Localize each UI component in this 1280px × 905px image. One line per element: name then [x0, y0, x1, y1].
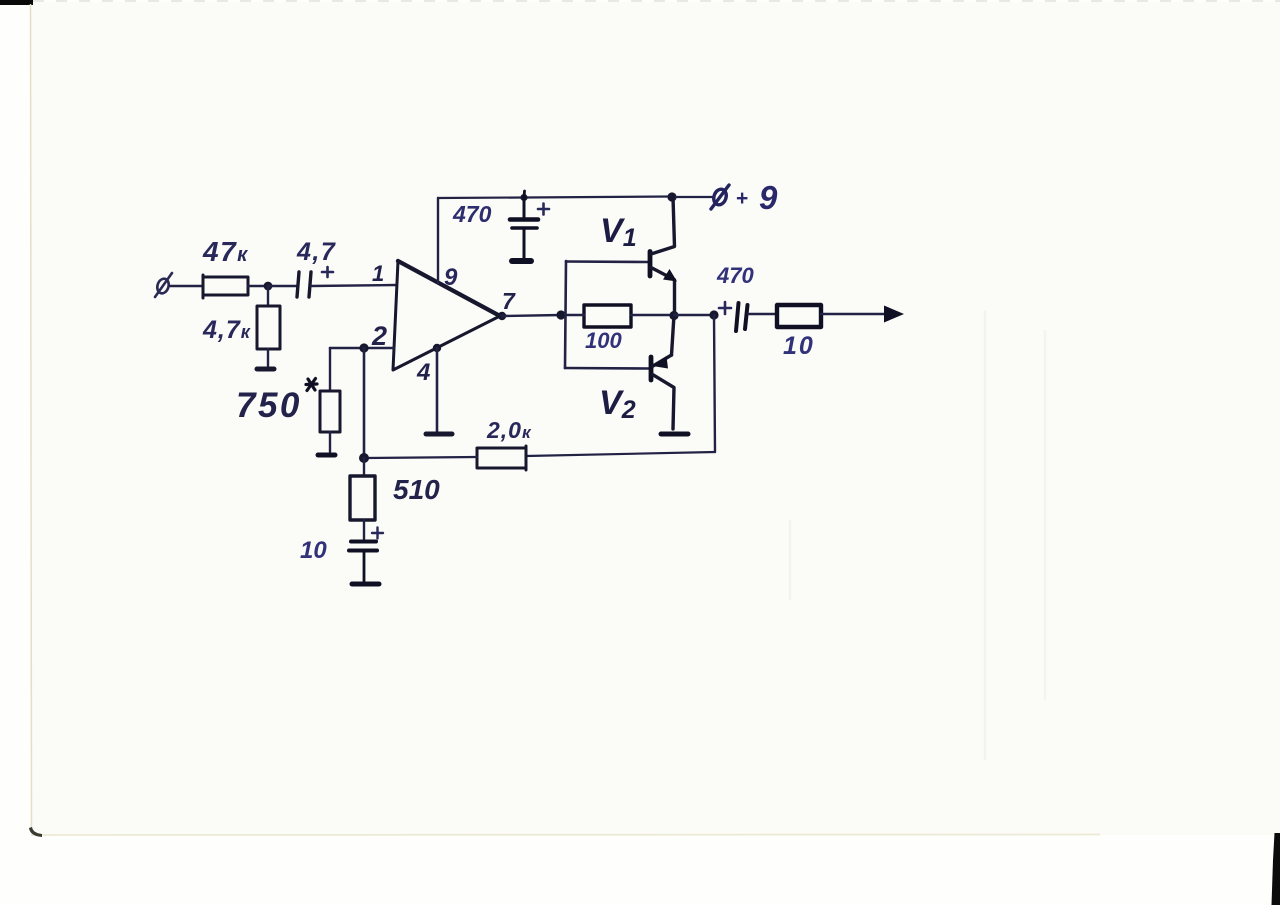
wire node D to node E: [674, 314, 714, 316]
svg-text:7: 7: [502, 288, 516, 314]
base network box left wire: [565, 261, 566, 368]
input terminal: [155, 273, 172, 297]
wire node B down to node F: [363, 348, 366, 458]
capacitor C 4.7: [297, 272, 311, 297]
resistor 2.0k: [477, 446, 526, 470]
feedback wire bottom to R2.0k: [526, 452, 715, 456]
top +9 rail: [438, 197, 672, 199]
capacitor C470 decoupling: [510, 198, 538, 258]
rail junction at C470: [520, 194, 527, 201]
svg-text:750: 750: [236, 386, 302, 425]
asterisk mark: [306, 379, 317, 391]
svg-text:4: 4: [416, 359, 430, 386]
wire input2 corner down to R750: [329, 348, 331, 391]
svg-text:470: 470: [716, 263, 754, 288]
wire node A to C4.7: [268, 285, 296, 287]
wire node A down to R4.7k: [267, 286, 269, 306]
plus sign of C4.7: [322, 267, 333, 277]
ground under R4.7k: [257, 367, 274, 372]
plus of C10: [372, 528, 383, 539]
resistor 4.7k: [257, 306, 280, 349]
svg-text:10: 10: [300, 537, 327, 564]
transistor V2 base bar: [649, 357, 654, 380]
wire node F to R510: [363, 458, 365, 476]
svg-text:510: 510: [393, 474, 440, 505]
output node of op-amp: [498, 312, 506, 320]
transistor V2 emitter with arrow: [653, 315, 674, 366]
svg-text:2: 2: [371, 321, 387, 351]
wire R2.0k to node F: [364, 457, 477, 458]
plus of C470: [538, 204, 549, 215]
wire R510 to C10: [363, 520, 365, 539]
node C junction: [556, 310, 565, 319]
resistor 47k: [203, 275, 248, 298]
ground under R750: [318, 453, 335, 458]
wire R47k to node A: [248, 285, 268, 287]
wire R10 to output arrow: [821, 313, 886, 315]
output arrowhead: [884, 306, 904, 323]
wire R4.7k to ground: [267, 349, 269, 366]
resistor 510: [350, 476, 375, 520]
svg-text:470: 470: [452, 201, 492, 227]
node A junction: [264, 282, 273, 291]
pin 4 wire down: [436, 348, 439, 431]
base network top wire to V1 base: [566, 260, 648, 263]
rail node at V1 collector: [667, 192, 676, 201]
ground under pin 4: [426, 432, 452, 437]
transistor V1 base bar: [648, 252, 653, 277]
svg-text:9: 9: [759, 179, 778, 216]
op-amp input 2 wire: [330, 347, 394, 350]
svg-text:100: 100: [585, 328, 622, 353]
op-amp U1 triangle: [393, 261, 500, 370]
wire node C to R100: [565, 314, 584, 316]
feedback wire node E down: [714, 315, 715, 452]
capacitor C10: [349, 542, 377, 582]
resistor 10 output: [777, 305, 821, 327]
pin 9 wire to top rail: [437, 198, 439, 283]
+9 terminal circle: [711, 185, 729, 209]
wire op-amp output to node C: [502, 315, 561, 316]
transistor V1 collector: [651, 197, 675, 254]
wire input to R47k: [170, 285, 202, 287]
node D junction: [669, 311, 678, 320]
svg-text:10: 10: [783, 332, 815, 360]
wire R100 to node D: [631, 314, 674, 316]
transistor V2 collector: [653, 375, 675, 430]
ground bar under C470: [512, 258, 531, 264]
wire R750 to ground: [329, 432, 331, 452]
wire C4.7 to op-amp pin 1: [311, 285, 396, 286]
plus of C470 output: [719, 302, 731, 314]
resistor 750: [320, 391, 340, 432]
svg-text:+: +: [736, 187, 748, 210]
base network bottom wire to V2 base: [565, 367, 649, 370]
node E junction: [709, 310, 718, 319]
rail to +9 terminal: [672, 196, 712, 198]
wire C470 to R10: [748, 313, 776, 315]
resistor 100: [584, 305, 631, 327]
ground under C10: [352, 582, 379, 587]
pin 4 junction: [433, 344, 441, 352]
node F junction: [359, 453, 369, 463]
svg-text:4,7: 4,7: [296, 238, 336, 266]
transistor V1 emitter with arrow: [651, 268, 675, 316]
ground under V2: [661, 432, 688, 437]
capacitor C470 output: [736, 303, 748, 331]
node B junction on input 2: [359, 343, 368, 352]
svg-text:9: 9: [444, 264, 458, 291]
svg-text:1: 1: [372, 261, 384, 286]
